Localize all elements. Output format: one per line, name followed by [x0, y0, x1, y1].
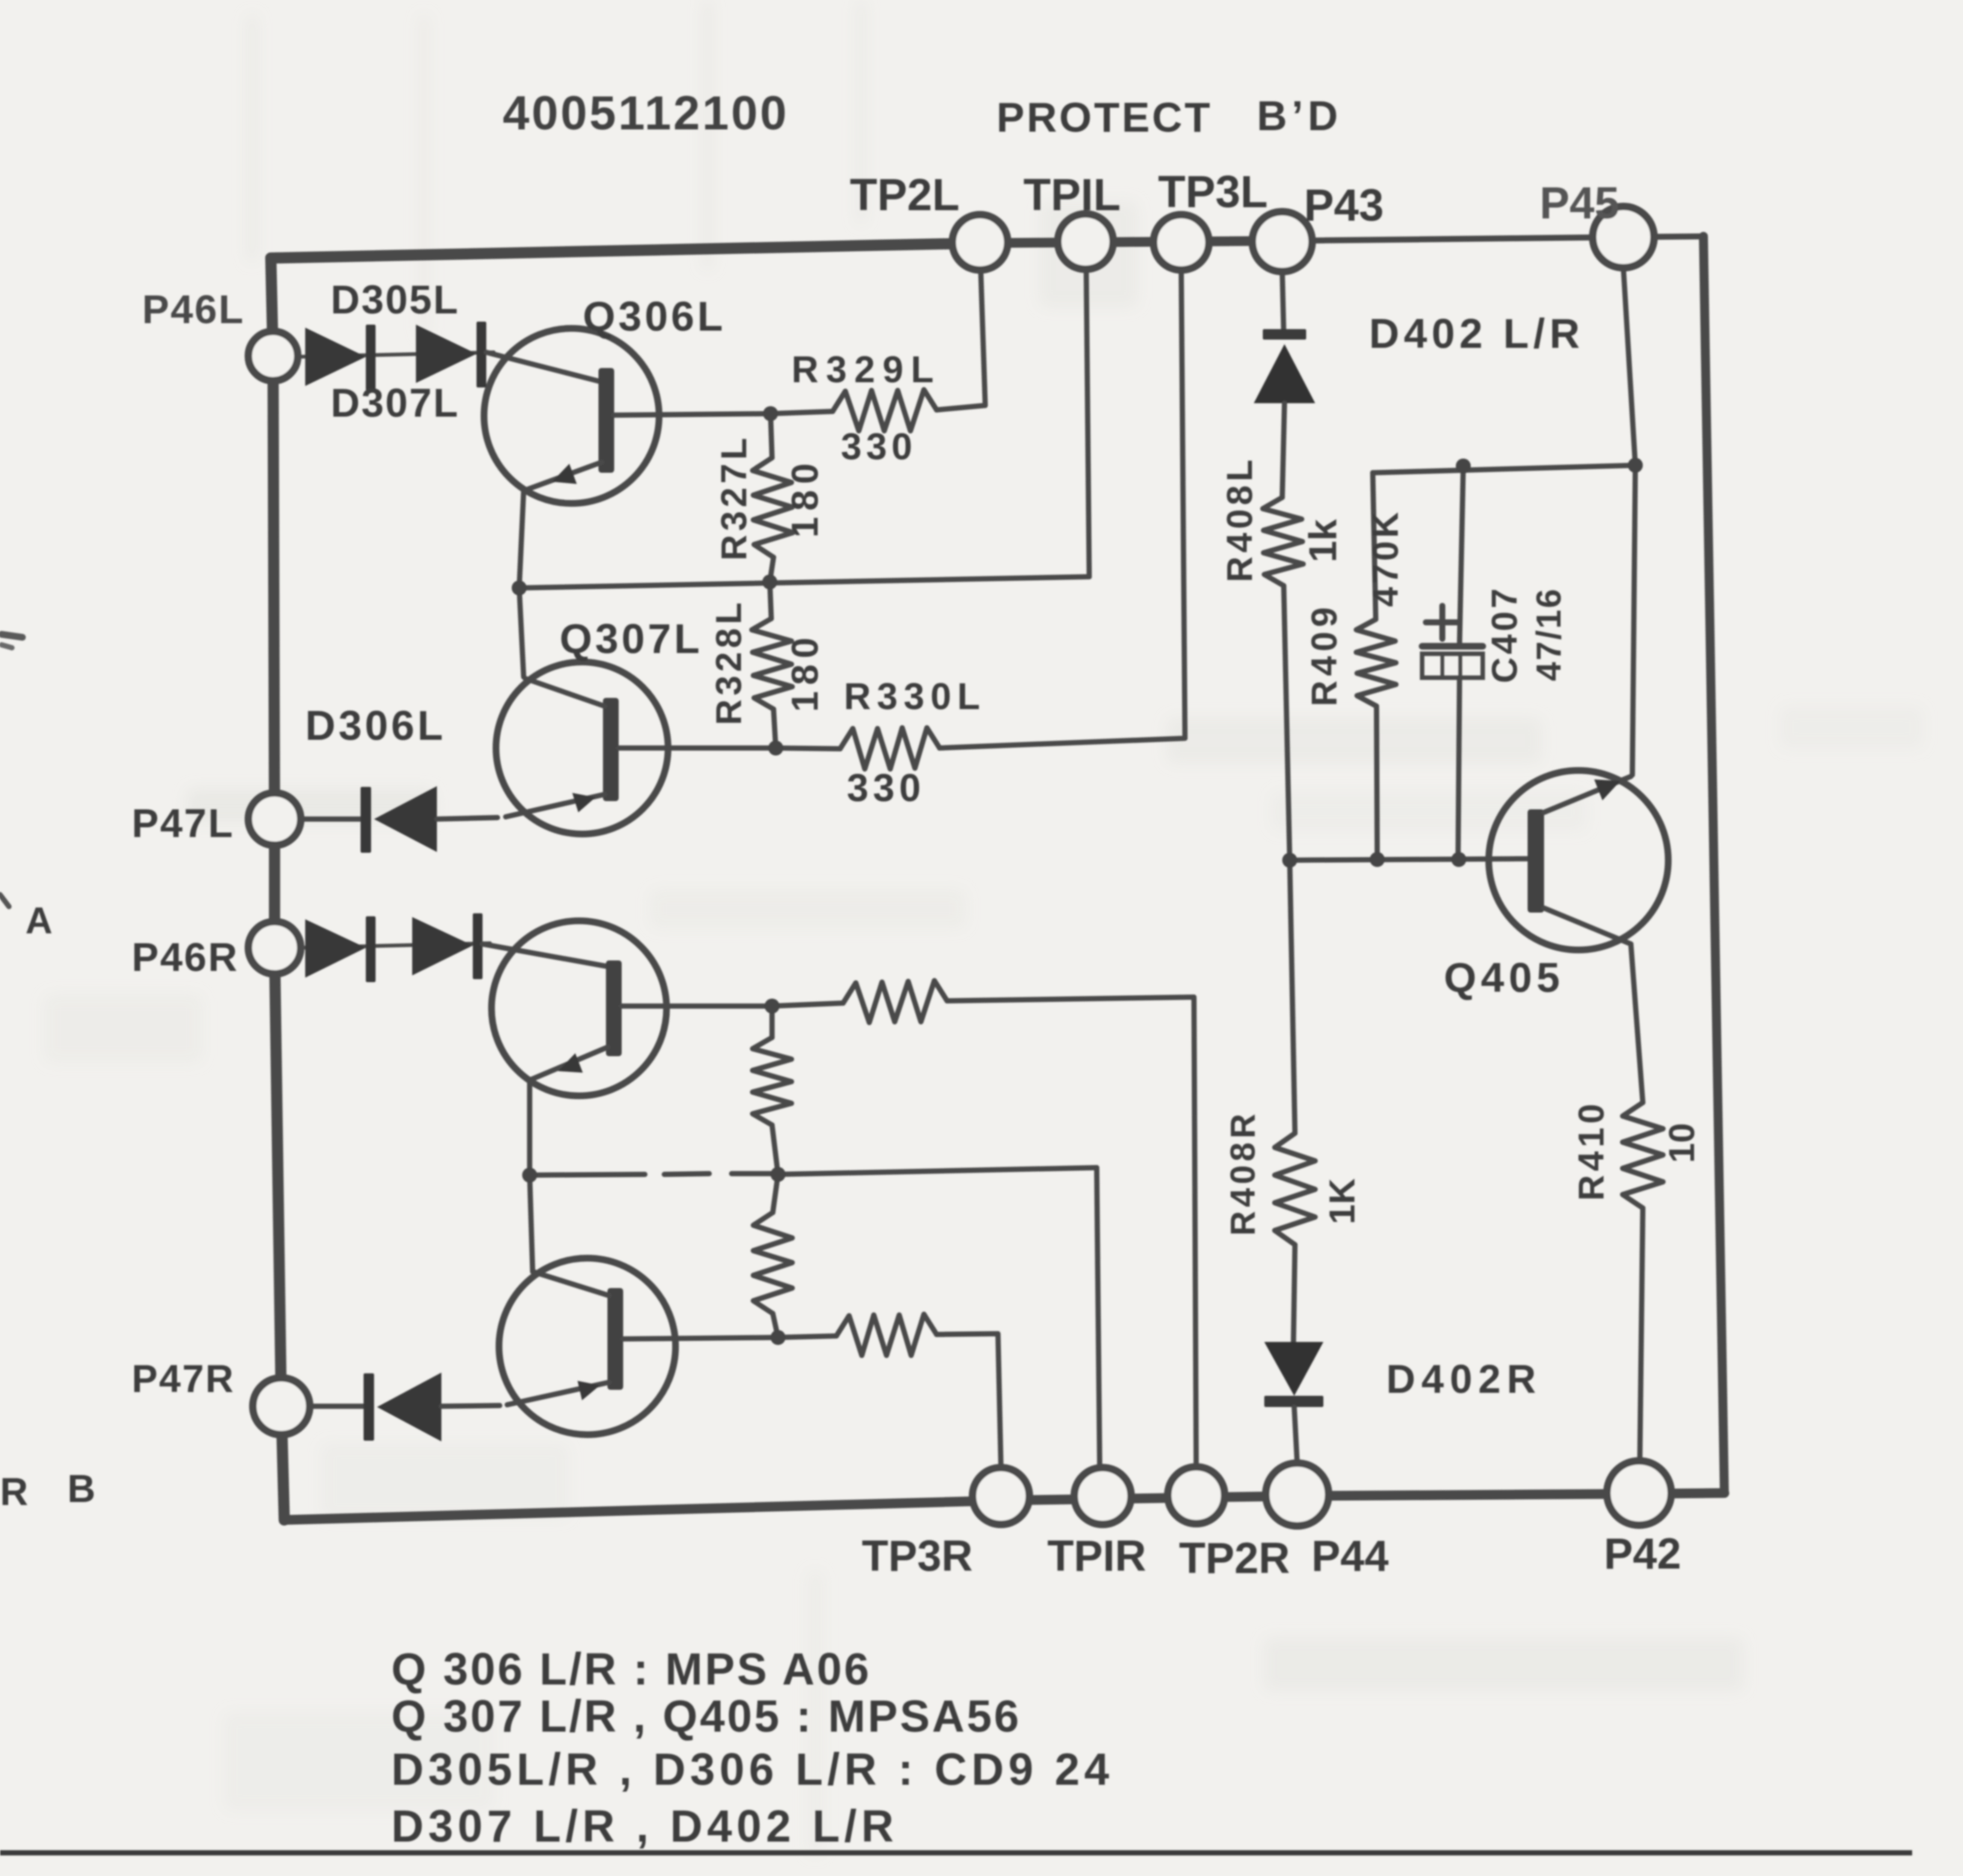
svg-text:P46R: P46R	[132, 935, 239, 980]
svg-text:P43: P43	[1304, 180, 1384, 230]
svg-text:4005112100: 4005112100	[503, 86, 788, 140]
svg-text:R408L: R408L	[1221, 456, 1261, 582]
svg-text:R409: R409	[1305, 603, 1345, 707]
svg-text:47/16: 47/16	[1529, 587, 1568, 681]
svg-text:D402R: D402R	[1386, 1357, 1542, 1402]
svg-text:P46L: P46L	[142, 287, 245, 332]
svg-text:B’D: B’D	[1257, 92, 1342, 139]
svg-text:Q307L: Q307L	[560, 615, 702, 662]
svg-text:P44: P44	[1311, 1532, 1388, 1581]
svg-text:10: 10	[1663, 1123, 1703, 1162]
svg-text:D306L: D306L	[305, 702, 446, 749]
svg-text:TP2L: TP2L	[850, 170, 960, 220]
svg-text:180: 180	[784, 631, 826, 711]
svg-text:TP2R: TP2R	[1179, 1534, 1290, 1583]
svg-text:R330L: R330L	[844, 675, 986, 717]
svg-text:330: 330	[841, 426, 916, 468]
svg-text:TP3L: TP3L	[1158, 167, 1268, 217]
svg-text:P42: P42	[1604, 1530, 1681, 1578]
svg-text:1K: 1K	[1323, 1178, 1363, 1224]
svg-text:R408R: R408R	[1223, 1110, 1262, 1236]
svg-text:1k: 1k	[1302, 519, 1345, 563]
svg-text:C407: C407	[1486, 586, 1525, 684]
svg-text:Q 307 L/R , Q405 : MPSA56: Q 307 L/R , Q405 : MPSA56	[391, 1691, 1021, 1741]
svg-text:D305L: D305L	[331, 278, 459, 322]
svg-text:A: A	[25, 900, 52, 942]
svg-text:D307L: D307L	[331, 381, 459, 426]
svg-text:P45: P45	[1540, 178, 1620, 228]
svg-text:D307 L/R , D402 L/R: D307 L/R , D402 L/R	[391, 1801, 898, 1851]
svg-text:P47L: P47L	[132, 801, 234, 846]
svg-text:330: 330	[847, 767, 925, 810]
svg-text:R410: R410	[1572, 1100, 1612, 1201]
svg-text:D402 L/R: D402 L/R	[1369, 310, 1584, 357]
svg-text:R328L: R328L	[710, 598, 750, 725]
svg-text:Q 306 L/R : MPS A06: Q 306 L/R : MPS A06	[391, 1644, 872, 1694]
svg-text:D305L/R , D306 L/R : CD9 24: D305L/R , D306 L/R : CD9 24	[391, 1744, 1114, 1794]
svg-text:R327L: R327L	[715, 434, 755, 560]
svg-text:B: B	[67, 1468, 96, 1511]
svg-text:R: R	[0, 1471, 28, 1514]
svg-text:R329L: R329L	[791, 349, 941, 390]
svg-text:P47R: P47R	[132, 1358, 235, 1401]
svg-text:TPIR: TPIR	[1047, 1532, 1146, 1581]
svg-text:TPIL: TPIL	[1023, 170, 1121, 220]
svg-text:Q405: Q405	[1444, 954, 1564, 1001]
svg-text:PROTECT: PROTECT	[996, 94, 1213, 141]
svg-text:180: 180	[784, 457, 826, 537]
svg-text:TP3R: TP3R	[862, 1532, 973, 1581]
svg-text:470K: 470K	[1367, 509, 1406, 607]
svg-text:Q306L: Q306L	[583, 292, 726, 340]
